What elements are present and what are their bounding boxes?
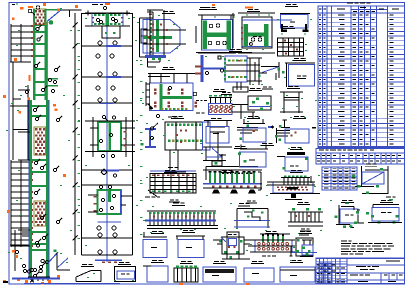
label 1-1 left <box>165 171 186 173</box>
tower2 scattered circles <box>96 54 100 58</box>
tower2 blue bar and diamond at y170 <box>102 169 119 171</box>
drawing bolt beam row5 <box>260 233 290 235</box>
bottom left corner detail <box>56 253 58 271</box>
drawing section 2-2 box <box>243 123 265 125</box>
title block texts <box>386 261 400 262</box>
bottom small drawing: box with labels <box>115 267 136 282</box>
drawing box row5 b <box>178 240 204 258</box>
drawing grid E <box>278 38 304 56</box>
tower top cap brick <box>34 9 47 25</box>
drawing col base C <box>232 13 234 48</box>
drawing rebar mesh <box>150 170 196 172</box>
drawing box blue band 3 <box>287 152 305 155</box>
spec table title <box>347 2 353 3</box>
drawing long beam with posts <box>203 169 262 171</box>
narrow column detail right of tower2 <box>139 18 141 57</box>
drawing box blue band <box>248 96 271 110</box>
spec table text marks <box>319 15 321 16</box>
drawing H frame <box>283 92 285 113</box>
drawing labels <box>163 11 168 12</box>
drawing corner detail blue beam <box>145 55 166 58</box>
drawing beam connection (green dash rows) <box>165 122 210 150</box>
top-left tiny marks <box>12 4 15 5</box>
drawing beam right hatch <box>281 177 310 179</box>
tower weld circles <box>36 27 39 30</box>
drawing triangle gusset mid <box>205 147 207 161</box>
detail box B <box>373 204 399 206</box>
tower2 blue dashes on frame lines <box>106 45 121 47</box>
step lines right of plate <box>232 104 248 106</box>
tower top dim marks <box>28 9 32 13</box>
tower2 right dim marks <box>140 64 142 65</box>
tower2 bottom bearing <box>95 259 122 261</box>
tower orange vertical marks <box>29 75 31 81</box>
drawing blue Ibeam left <box>149 128 151 148</box>
truss dimension bracket + dense label <box>206 166 258 168</box>
tower bottom segment <box>41 259 44 262</box>
drawing base plate big blue frame <box>150 83 194 111</box>
green plus mark <box>349 226 353 227</box>
small bracket between boxes <box>357 215 359 223</box>
scattered green dim ticks <box>60 8 62 9</box>
drawing beam with posts right <box>288 211 323 213</box>
drawing box row5 a <box>143 240 167 258</box>
spec table grid <box>318 6 405 148</box>
drawing col base B <box>202 20 233 51</box>
drawing section 1-1 box <box>204 120 232 122</box>
left middle frame (no rungs) <box>12 62 14 160</box>
bottom right blue hatch block <box>319 263 332 283</box>
title block <box>316 258 405 283</box>
drawing beam seat D <box>280 13 310 15</box>
tower2 top green box <box>92 13 123 26</box>
drawing small row5 <box>296 238 313 256</box>
tower2 frame <box>81 13 83 255</box>
drawing blue square <box>289 65 315 87</box>
orange marks <box>105 3 110 5</box>
tower2 lower green box <box>98 190 122 214</box>
tower ground line <box>12 278 60 280</box>
ladder bottom platform <box>14 230 16 271</box>
lист label above title <box>386 197 391 198</box>
drawing cross detail <box>222 237 244 254</box>
tower2 left dimension line <box>74 13 76 255</box>
drawing box right (stepped) <box>276 128 278 143</box>
drawing D-plate with green cross <box>143 20 180 54</box>
bottom row boxes <box>147 266 168 282</box>
tower brick hatch blocks <box>34 127 46 155</box>
tower green branch right <box>46 78 58 80</box>
left ladder rails <box>10 24 12 62</box>
drawing bolts plate <box>209 97 232 99</box>
small table below <box>322 167 357 190</box>
brace detail right of table <box>365 169 388 171</box>
drawing long truss bottom <box>147 210 216 212</box>
page number mark bottom-left <box>3 281 8 283</box>
tower orange side marks <box>53 104 56 106</box>
detail post with blue plate <box>301 229 305 230</box>
drawing wedge bracket <box>261 66 279 68</box>
drawing z-step box <box>237 208 268 210</box>
tower top flag <box>46 9 61 11</box>
header table <box>316 149 405 165</box>
tower dim crossing lines <box>18 61 30 63</box>
bottom small drawing: triangle gusset <box>76 281 101 283</box>
drawing dense anchor UZ <box>196 52 252 54</box>
tower2 middle green box <box>98 122 121 151</box>
drawing blue tee upper <box>201 55 204 82</box>
left tower green verticals <box>33 22 36 100</box>
detail box A <box>341 206 354 208</box>
drawing box blue band 2 <box>240 148 268 150</box>
notes text <box>341 241 347 242</box>
